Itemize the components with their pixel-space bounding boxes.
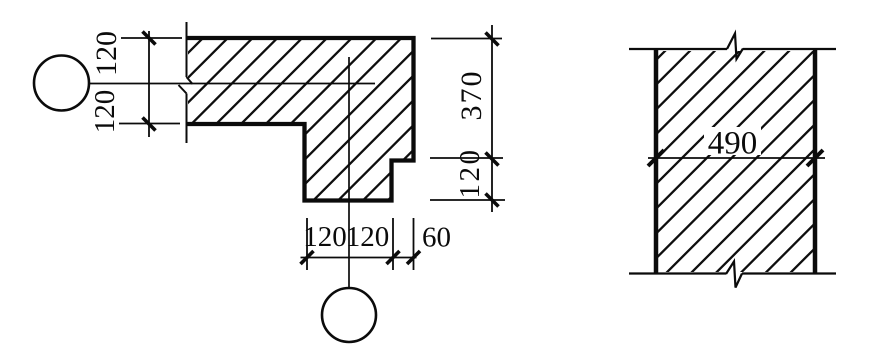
svg-text:490: 490 xyxy=(708,126,758,162)
horizontal axis line A xyxy=(90,83,376,85)
extension line mid-left xyxy=(119,123,180,125)
W2 top boundary line with break mark xyxy=(629,34,836,60)
extension line bottom c xyxy=(413,218,415,270)
W2 dimension line (horizontal) xyxy=(648,157,825,159)
tick at (815,158) xyxy=(807,150,823,166)
W2 bottom boundary line with break mark xyxy=(629,262,836,288)
left dimension line (vertical) xyxy=(148,31,150,137)
extension line bottom-right xyxy=(430,199,505,201)
tick at (492,200) xyxy=(486,194,499,207)
tick at (393,257.5) xyxy=(387,251,400,264)
wall W2 left cut line (thick) xyxy=(654,49,659,274)
tick at (413.5,257.5) xyxy=(407,251,420,264)
bottom dimension line (horizontal) xyxy=(301,257,417,259)
hatching of wall W1 xyxy=(0,15,573,295)
vertical axis line B xyxy=(348,57,350,288)
svg-text:120: 120 xyxy=(303,221,347,253)
wall outline W1 (corner wall section, thick cut lines) xyxy=(186,38,414,201)
right dimension line (vertical) xyxy=(491,25,493,212)
svg-text:120: 120 xyxy=(89,90,121,134)
left thin edge of wall W1 with break zigzag xyxy=(179,22,193,143)
tick at (492,39) xyxy=(486,33,499,46)
axis bubble circle (left) xyxy=(34,56,89,111)
tick at (149,38) xyxy=(143,32,156,45)
svg-text:60: 60 xyxy=(422,222,451,254)
extension line top-right xyxy=(431,38,502,40)
svg-text:370: 370 xyxy=(455,70,488,121)
hatching of wall W2 xyxy=(421,15,884,295)
extension line top-left xyxy=(121,37,182,39)
tick at (149,124) xyxy=(143,118,156,131)
svg-text:120: 120 xyxy=(454,148,486,199)
extension line bottom a xyxy=(306,218,308,270)
label 490 backing xyxy=(704,127,761,155)
tick at (492,159) xyxy=(486,153,499,166)
extension line step-right xyxy=(430,157,503,159)
wall W2 right cut line (thick) xyxy=(813,49,818,274)
extension line bottom b xyxy=(392,218,394,270)
svg-text:120: 120 xyxy=(90,31,123,76)
axis bubble circle (bottom) xyxy=(322,288,376,342)
tick at (307,257.5) xyxy=(301,251,314,264)
svg-text:120: 120 xyxy=(346,221,390,253)
tick at (656,158) xyxy=(648,150,664,166)
